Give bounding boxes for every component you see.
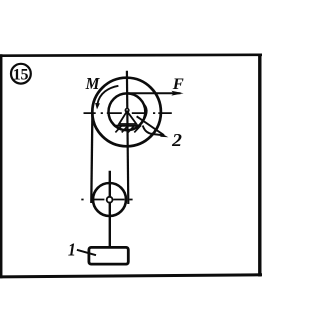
svg-text:2: 2 bbox=[171, 130, 182, 150]
svg-text:M: M bbox=[85, 74, 101, 93]
svg-text:1: 1 bbox=[68, 239, 76, 259]
svg-text:F: F bbox=[172, 76, 184, 93]
svg-text:15: 15 bbox=[13, 66, 29, 83]
